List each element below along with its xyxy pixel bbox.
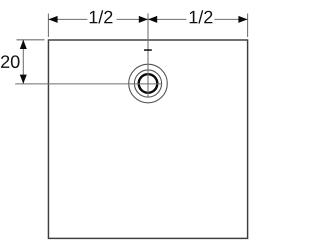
arrow left end <box>48 16 57 23</box>
top dimension line segments <box>48 18 87 20</box>
vertical crosshair / centre extension line <box>147 13 149 97</box>
shower tray outline <box>48 40 247 238</box>
label 1/2 right <box>190 10 213 23</box>
left extension line (top dimension) <box>47 14 49 38</box>
arrow centre pointing left <box>148 16 157 23</box>
arrow centre pointing right <box>139 16 148 23</box>
horizontal crosshair / extension line through drain centre <box>15 83 161 85</box>
left dimension line <box>22 40 24 84</box>
top extension line (left dimension "20") <box>17 39 45 41</box>
drain bold circle <box>139 74 158 93</box>
right extension line (top dimension) <box>247 14 249 38</box>
drain outer circle <box>129 64 168 103</box>
label 1/2 left <box>90 10 113 23</box>
tick mark on centre line <box>144 49 152 51</box>
arrow right end <box>238 16 247 23</box>
label 20 <box>1 55 19 68</box>
arrow down <box>20 75 27 84</box>
arrow up <box>20 40 27 49</box>
drain middle circle <box>134 70 161 97</box>
